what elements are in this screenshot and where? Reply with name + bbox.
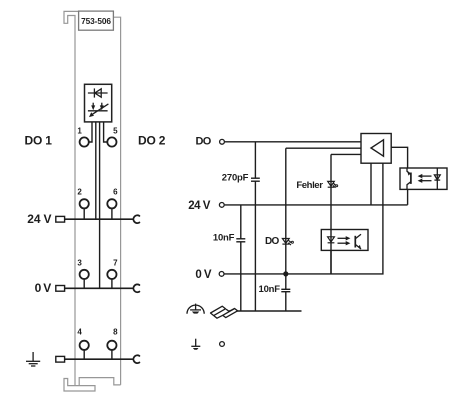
0V rail with corner up to driver: [224, 163, 383, 274]
label box 753-506: [79, 11, 114, 30]
svg-text:6: 6: [113, 187, 118, 196]
svg-text:0 V: 0 V: [35, 281, 52, 295]
earth dome symbol: [187, 304, 204, 314]
chassis rail icon: [211, 306, 238, 318]
driver triangle: [371, 140, 384, 156]
svg-text:24 V: 24 V: [188, 200, 211, 212]
svg-text:0 V: 0 V: [195, 269, 211, 281]
svg-text:4: 4: [77, 328, 82, 337]
svg-text:1: 1: [77, 127, 82, 136]
wire entry 0V: [56, 286, 65, 292]
light arrows right opto: [418, 174, 432, 183]
svg-text:Fehler: Fehler: [296, 180, 323, 191]
driver box: [361, 134, 391, 164]
LED Fehler: [328, 181, 338, 187]
suppressor diode in LED box: [88, 88, 108, 97]
terminal circle 0V: [219, 272, 224, 277]
wire LED box to 24V row: [95, 122, 97, 219]
wire LED box to terminal 1: [89, 122, 92, 142]
svg-text:DO: DO: [265, 236, 279, 247]
terminal circle 5: [107, 137, 116, 146]
module foot left bracket: [64, 379, 95, 392]
module foot right step: [79, 378, 120, 386]
svg-text:7: 7: [113, 259, 118, 268]
capacitor 10nF upper: [236, 238, 245, 240]
terminal stem 7: [111, 279, 113, 288]
svg-text:3: 3: [77, 259, 82, 268]
svg-text:DO 2: DO 2: [138, 133, 166, 147]
svg-text:8: 8: [113, 328, 118, 337]
cage clamp arc 0V: [133, 284, 139, 292]
0V row wire: [65, 287, 134, 289]
terminal circle 3: [80, 270, 89, 279]
terminal circle 4: [80, 341, 89, 350]
svg-text:24 V: 24 V: [27, 212, 51, 226]
svg-text:270pF: 270pF: [222, 172, 249, 183]
svg-text:DO 1: DO 1: [25, 133, 53, 147]
driver output to 24V rail: [370, 163, 372, 205]
capacitor 270pF: [251, 177, 260, 179]
24V row wire: [65, 218, 134, 220]
svg-text:10nF: 10nF: [213, 232, 235, 243]
terminal stem 3: [83, 279, 85, 288]
module outline right edge: [113, 17, 120, 385]
diode right opto: [434, 168, 440, 189]
24V rail: [225, 204, 408, 206]
wire 10nF branch: [240, 205, 242, 311]
DO rail: [225, 141, 361, 143]
light arrows DO opto: [338, 236, 351, 245]
earth symbol small: [191, 339, 200, 350]
svg-text:5: 5: [113, 127, 118, 136]
module outline left edge with top hook: [64, 11, 79, 385]
wire through DO opto: [330, 230, 332, 274]
terminal circle 2: [80, 199, 89, 208]
optocoupler right box: [400, 168, 447, 189]
terminal circle 6: [107, 199, 116, 208]
phototransistor DO opto: [355, 234, 361, 249]
wire Fehler branch: [330, 154, 332, 274]
wire 270pF branch: [254, 142, 256, 311]
terminal stem 4: [83, 350, 85, 359]
wire DO-LED branch: [285, 148, 287, 311]
optocoupler DO box: [321, 230, 368, 251]
svg-text:2: 2: [77, 187, 82, 196]
dual status LED in LED box: [88, 103, 109, 117]
wire driver input 2: [286, 147, 361, 149]
svg-text:10nF: 10nF: [259, 284, 281, 295]
terminal circle 7: [107, 270, 116, 279]
wire driver input 3: [331, 153, 361, 155]
terminal circle 1: [80, 137, 89, 146]
LED DO status: [282, 239, 293, 246]
earth symbol module: [26, 352, 40, 366]
wire LED box to 0V row: [99, 122, 101, 288]
capacitor 10nF lower: [281, 288, 290, 290]
wire LED box to terminal 5: [104, 122, 108, 142]
LED indicator box: [85, 84, 112, 122]
wire entry ground: [56, 356, 65, 362]
phototransistor right opto: [407, 168, 411, 189]
LED in DO opto: [328, 237, 335, 243]
cage clamp arc 24V: [133, 215, 139, 223]
terminal stem 2: [83, 208, 85, 219]
terminal circle earth: [220, 342, 225, 347]
earth bottom rail: [229, 310, 302, 312]
svg-text:DO: DO: [196, 135, 212, 147]
terminal circle DO: [220, 139, 225, 144]
wire entry 24V: [56, 216, 65, 222]
wire driver to optocoupler: [391, 147, 407, 205]
terminal circle 24V: [219, 203, 224, 208]
cage clamp arc ground: [133, 355, 139, 363]
ground row wire: [65, 358, 134, 360]
junction dot 0V: [283, 271, 288, 276]
svg-text:753-506: 753-506: [81, 16, 111, 26]
terminal stem 8: [111, 350, 113, 359]
terminal stem 6: [111, 208, 113, 219]
terminal circle 8: [107, 341, 116, 350]
